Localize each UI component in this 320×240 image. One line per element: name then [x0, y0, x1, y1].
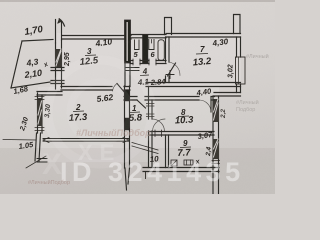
- svg-text:2.84: 2.84: [150, 77, 167, 87]
- svg-text:#ЛичныйПодбор: #ЛичныйПодбор: [28, 179, 70, 186]
- svg-text:10.3: 10.3: [175, 115, 195, 127]
- svg-text:2: 2: [75, 103, 81, 112]
- svg-text:3: 3: [87, 47, 92, 56]
- svg-text:4,3: 4,3: [25, 56, 39, 68]
- svg-text:#Личный: #Личный: [246, 53, 269, 60]
- svg-text:5.62: 5.62: [96, 92, 114, 104]
- svg-text:2,4: 2,4: [205, 146, 213, 157]
- svg-text:ХЕ: ХЕ: [78, 140, 121, 165]
- svg-text:#Личный: #Личный: [236, 99, 259, 106]
- svg-text:7: 7: [200, 45, 205, 54]
- svg-text:3,02: 3,02: [228, 64, 235, 78]
- svg-text:Подбор: Подбор: [236, 107, 255, 113]
- svg-text:X: X: [42, 148, 62, 181]
- svg-text:13.2: 13.2: [192, 56, 212, 69]
- svg-text:2,2: 2,2: [220, 109, 227, 119]
- svg-text:#ЛичныйПодбор: #ЛичныйПодбор: [76, 128, 151, 138]
